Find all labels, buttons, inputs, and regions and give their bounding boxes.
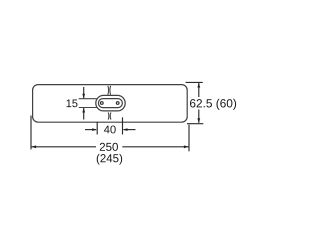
label 40 [104, 125, 116, 133]
dim 250 right segment with right arrow [122, 146, 189, 148]
dim 62.5 top extension bar [186, 81, 203, 83]
dim 40 extension line left [96, 122, 98, 135]
slot extension line lower [79, 107, 97, 109]
dim 40 right segment with left arrow [124, 129, 136, 131]
bracket outer stadium [96, 95, 125, 111]
dim 62.5 upper segment with up arrow [198, 83, 200, 97]
break mark bottom [107, 112, 110, 119]
dim 40 left segment with right arrow [85, 129, 96, 131]
label 250 [100, 143, 118, 151]
dim 62.5 bottom extension bar [187, 123, 203, 125]
plate outline [33, 85, 188, 123]
dim 250 left segment with left arrow [31, 146, 96, 148]
dim 250 extension line left [30, 116, 32, 150]
hole left [100, 102, 103, 105]
dim 15 lower line with up arrow [83, 108, 85, 120]
break mark top [107, 86, 110, 95]
dim 62.5 lower segment with down arrow [198, 110, 200, 123]
dim 40 extension line right [122, 117, 124, 134]
dim 15 upper line with down arrow [83, 87, 85, 98]
hole right [116, 102, 119, 105]
label 62.5 (60) [190, 99, 236, 110]
bracket inner slot [98, 99, 122, 108]
slot extension line upper [79, 98, 97, 100]
label (245) [97, 154, 122, 165]
dim 250 extension line right [188, 125, 190, 152]
label 15 [67, 100, 78, 108]
